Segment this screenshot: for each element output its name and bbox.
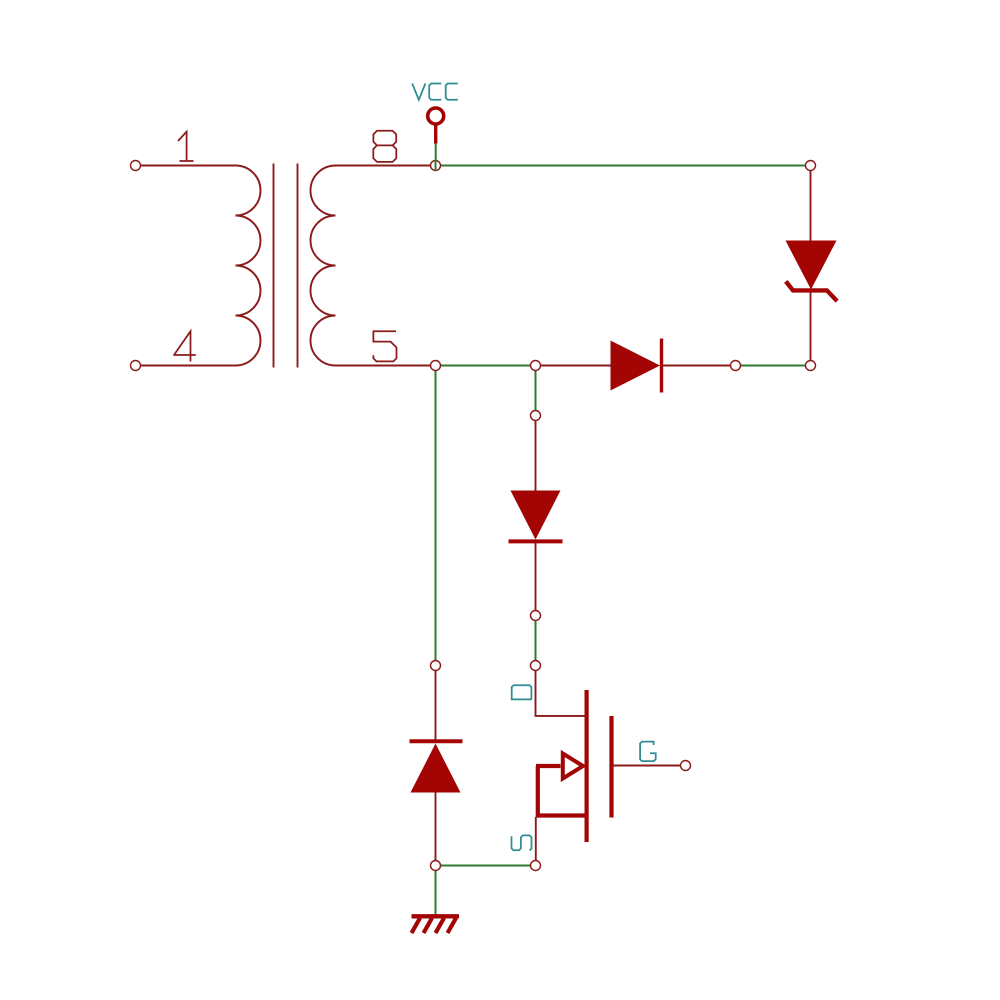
- junction circle bottom diode top: [431, 661, 441, 671]
- label VCC: [412, 84, 458, 100]
- ground symbol hatch 4: [448, 918, 457, 933]
- diode vertical: bottom pin wire: [535, 543, 537, 616]
- ground symbol hatch 1: [412, 918, 421, 933]
- diode vertical: cathode bar: [509, 539, 563, 543]
- pin label G: [640, 742, 656, 762]
- diode horizontal: anode pin wire: [536, 365, 611, 367]
- transformer secondary winding with pin wires: [311, 166, 436, 366]
- junction circle vertical diode top: [531, 411, 541, 421]
- diode bottom: anode pin wire: [435, 793, 437, 866]
- diode vertical: triangle: [511, 491, 561, 540]
- pin number 5: [373, 331, 396, 361]
- junction circle ground node: [431, 861, 441, 871]
- junction circle zener bottom: [806, 361, 816, 371]
- mosfet channel bar: [584, 690, 588, 842]
- pin number 8: [373, 131, 396, 162]
- junction circle pin 5: [431, 361, 441, 371]
- ground symbol hatch 2: [424, 918, 433, 933]
- mosfet source thick path: [538, 766, 586, 816]
- junction circle vertical diode bottom: [531, 611, 541, 621]
- wire pin5 net to diode anode node: [436, 365, 536, 367]
- wire vertical diode to mosfet drain: [535, 616, 537, 666]
- diode horizontal: triangle: [611, 341, 661, 391]
- mosfet gate pin wire: [614, 765, 686, 767]
- terminal circle pin 4: [131, 361, 141, 371]
- pin label S: [512, 835, 532, 850]
- mosfet drain pin wire: [536, 666, 585, 716]
- zener diode right: bent cathode bar: [786, 281, 837, 301]
- junction circle mosfet gate: [681, 761, 691, 771]
- wire node to vertical diode: [535, 366, 537, 416]
- wire VCC top net horizontal: [436, 165, 811, 167]
- junction circle diode cathode: [731, 361, 741, 371]
- wire VCC symbol stem: [435, 143, 437, 166]
- wire through VCC junction: [435, 160, 437, 171]
- wire ground node to mosfet source: [436, 865, 536, 867]
- diode horizontal: cathode bar: [660, 339, 663, 393]
- junction circle mosfet source: [531, 861, 541, 871]
- pin label D: [511, 685, 532, 699]
- transformer primary winding with pin wires: [136, 166, 261, 366]
- diode vertical: top pin wire: [535, 416, 537, 491]
- supply symbol VCC stem: [434, 126, 437, 144]
- zener diode right: bottom pin wire: [810, 290, 812, 366]
- zener diode right: top pin wire: [810, 166, 812, 241]
- diode bottom: cathode pin wire: [435, 666, 437, 741]
- ground symbol bar: [412, 914, 460, 918]
- supply symbol VCC circle: [428, 108, 444, 124]
- terminal circle pin 1: [131, 161, 141, 171]
- wire diode cathode to zener: [736, 365, 811, 367]
- mosfet body-diode arrow: [563, 754, 583, 779]
- mosfet source pin wire: [535, 817, 537, 866]
- wire ground node down to ground symbol: [435, 866, 437, 915]
- mosfet gate bar: [609, 716, 613, 818]
- junction circle diode anode node: [531, 361, 541, 371]
- diode bottom: triangle: [411, 744, 461, 793]
- mosfet source connection thick line to arrow: [536, 764, 561, 768]
- diode horizontal: cathode pin wire: [663, 365, 736, 367]
- pin number 4: [173, 331, 196, 361]
- transformer core line left: [273, 164, 275, 368]
- diode bottom: cathode bar: [410, 739, 463, 743]
- pin number 1: [178, 132, 194, 161]
- transformer core line right: [297, 164, 299, 368]
- ground symbol hatch 3: [436, 918, 445, 933]
- wire pin5 node down to bottom diode: [435, 366, 437, 666]
- junction circle top right: [806, 161, 816, 171]
- junction circle mosfet drain: [531, 661, 541, 671]
- junction circle pin 8 / VCC: [431, 161, 441, 171]
- zener diode right: triangle: [786, 241, 837, 290]
